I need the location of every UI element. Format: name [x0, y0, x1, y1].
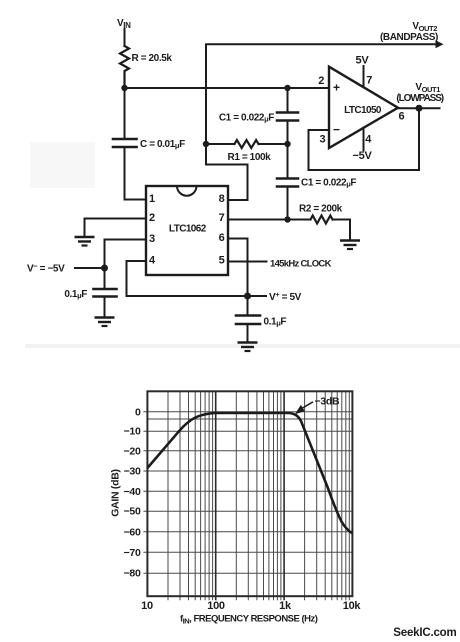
- svg-text:−50: −50: [124, 506, 141, 518]
- svg-text:C1 = 0.022μF: C1 = 0.022μF: [219, 113, 274, 124]
- svg-text:100: 100: [207, 600, 225, 612]
- svg-text:V+ = 5V: V+ = 5V: [269, 290, 302, 303]
- svg-text:R1 = 100k: R1 = 100k: [228, 152, 272, 163]
- svg-text:−80: −80: [124, 568, 141, 580]
- svg-text:145kHz CLOCK: 145kHz CLOCK: [270, 259, 332, 270]
- svg-text:GAIN (dB): GAIN (dB): [110, 469, 122, 516]
- svg-text:−3dB: −3dB: [315, 396, 340, 408]
- svg-text:0.1μF: 0.1μF: [264, 317, 287, 328]
- svg-text:2: 2: [318, 75, 324, 87]
- svg-text:−20: −20: [124, 445, 141, 457]
- svg-text:7: 7: [366, 75, 372, 87]
- svg-text:7: 7: [219, 212, 225, 224]
- svg-text:8: 8: [219, 193, 225, 205]
- svg-text:fIN, FREQUENCY RESPONSE (Hz): fIN, FREQUENCY RESPONSE (Hz): [180, 614, 318, 626]
- svg-text:−40: −40: [124, 486, 141, 498]
- svg-text:6: 6: [219, 232, 225, 244]
- svg-text:0.1μF: 0.1μF: [64, 289, 87, 300]
- svg-text:3: 3: [320, 134, 326, 146]
- svg-text:−70: −70: [124, 547, 141, 559]
- svg-text:5: 5: [219, 255, 225, 267]
- svg-text:LTC1062: LTC1062: [169, 224, 207, 235]
- svg-text:1: 1: [149, 193, 155, 205]
- svg-text:−30: −30: [124, 466, 141, 478]
- svg-text:(LOWPASS): (LOWPASS): [396, 93, 443, 104]
- svg-text:10: 10: [141, 600, 153, 612]
- svg-text:6: 6: [399, 111, 405, 123]
- svg-text:LTC1050: LTC1050: [344, 105, 382, 116]
- svg-text:R2 = 200k: R2 = 200k: [299, 204, 343, 215]
- svg-text:V− = −5V: V− = −5V: [27, 262, 65, 275]
- svg-text:−5V: −5V: [353, 150, 373, 162]
- svg-text:5V: 5V: [356, 55, 370, 67]
- svg-text:−: −: [333, 123, 340, 137]
- svg-text:SeekIC.com: SeekIC.com: [393, 627, 456, 639]
- svg-text:R = 20.5k: R = 20.5k: [132, 53, 173, 64]
- svg-text:10k: 10k: [343, 600, 362, 612]
- svg-text:C1 = 0.022μF: C1 = 0.022μF: [301, 177, 356, 188]
- svg-text:−60: −60: [124, 526, 141, 538]
- svg-text:C = 0.01μF: C = 0.01μF: [140, 139, 185, 150]
- svg-text:0: 0: [135, 406, 141, 418]
- svg-text:1k: 1k: [279, 600, 292, 612]
- svg-text:−10: −10: [124, 426, 141, 438]
- svg-text:3: 3: [149, 233, 155, 245]
- svg-text:(BANDPASS): (BANDPASS): [380, 32, 438, 43]
- svg-text:2: 2: [149, 212, 155, 224]
- svg-text:+: +: [333, 81, 340, 95]
